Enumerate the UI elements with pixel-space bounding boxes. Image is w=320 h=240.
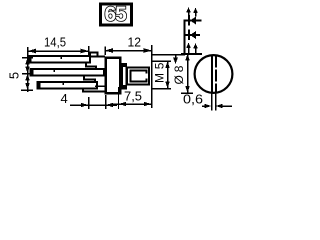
shared extension line (shaft end) xyxy=(151,45,153,108)
svg-text:7,5: 7,5 xyxy=(124,89,142,104)
slot (front view) xyxy=(212,56,216,111)
leader arrow to shaft xyxy=(173,55,178,64)
screw slot (side view) xyxy=(131,71,147,82)
svg-text:65: 65 xyxy=(105,3,128,26)
dimension 4 xyxy=(61,91,118,109)
slot detail symbol top-right xyxy=(184,7,203,55)
front view circle xyxy=(195,55,233,93)
dimension 5 (pin pitch, left) xyxy=(7,47,34,92)
body (side view) xyxy=(106,58,121,94)
svg-text:0,6: 0,6 xyxy=(183,92,203,107)
flange washer xyxy=(122,63,126,89)
terminal lug 1 (top) xyxy=(28,53,105,71)
dimension M5 xyxy=(152,61,171,89)
dimension 0,6 xyxy=(183,92,232,109)
dimension 12 xyxy=(105,35,152,56)
svg-text:14,5: 14,5 xyxy=(44,35,66,50)
svg-text:12: 12 xyxy=(128,35,142,50)
leader line to slot symbol xyxy=(152,54,186,56)
dimension 14,5 xyxy=(28,35,89,58)
dimension Ø8 xyxy=(172,54,193,94)
terminal lug 2 (middle) xyxy=(30,69,104,84)
svg-text:4: 4 xyxy=(61,91,68,106)
terminal lug 3 (bottom) xyxy=(37,82,105,92)
variant box 65 xyxy=(101,3,132,26)
svg-text:5: 5 xyxy=(7,72,22,79)
dimension 7,5 xyxy=(113,87,152,109)
bushing M5 xyxy=(127,68,149,85)
